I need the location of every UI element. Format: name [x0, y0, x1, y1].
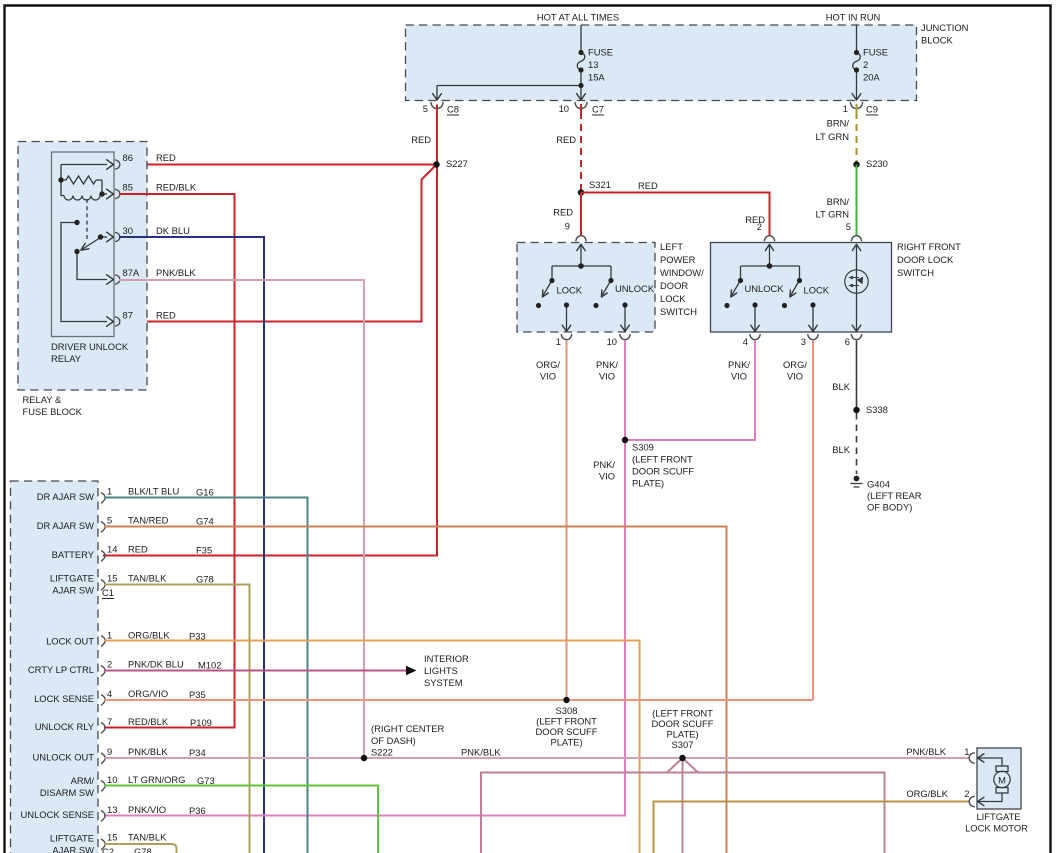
svg-text:S338: S338 — [866, 404, 888, 415]
svg-text:VIO: VIO — [787, 371, 803, 382]
svg-text:RED: RED — [553, 207, 573, 218]
svg-text:C2: C2 — [102, 846, 114, 853]
svg-text:3: 3 — [801, 336, 806, 347]
svg-text:HOT IN RUN: HOT IN RUN — [826, 12, 881, 23]
svg-text:G16: G16 — [196, 487, 214, 498]
svg-text:87: 87 — [123, 310, 133, 321]
svg-text:LT GRN: LT GRN — [815, 209, 849, 220]
svg-text:15A: 15A — [588, 72, 605, 83]
svg-text:SYSTEM: SYSTEM — [424, 677, 463, 688]
svg-text:M: M — [998, 775, 1006, 786]
svg-text:C1: C1 — [102, 587, 114, 598]
svg-text:ORG/VIO: ORG/VIO — [128, 688, 168, 699]
svg-text:FUSE: FUSE — [863, 47, 888, 58]
svg-text:S321: S321 — [589, 179, 611, 190]
svg-text:85: 85 — [123, 182, 133, 193]
svg-text:FUSE: FUSE — [588, 47, 613, 58]
svg-text:TAN/BLK: TAN/BLK — [128, 573, 167, 584]
svg-text:2: 2 — [964, 788, 969, 799]
svg-text:S307: S307 — [672, 739, 694, 750]
svg-text:DOOR SCUFF: DOOR SCUFF — [536, 726, 598, 737]
svg-text:ORG/BLK: ORG/BLK — [906, 788, 948, 799]
svg-text:LIFTGATE: LIFTGATE — [50, 833, 94, 844]
svg-text:ORG/BLK: ORG/BLK — [128, 630, 170, 641]
svg-text:JUNCTION: JUNCTION — [921, 22, 968, 33]
svg-text:14: 14 — [107, 544, 117, 555]
svg-text:PNK/: PNK/ — [728, 359, 750, 370]
svg-text:(RIGHT CENTER: (RIGHT CENTER — [371, 723, 444, 734]
svg-text:LOCK OUT: LOCK OUT — [46, 636, 94, 647]
svg-text:13: 13 — [588, 59, 598, 70]
svg-text:AJAR SW: AJAR SW — [52, 845, 94, 853]
svg-text:(LEFT FRONT: (LEFT FRONT — [632, 454, 693, 465]
svg-text:BLOCK: BLOCK — [921, 35, 954, 46]
svg-text:VIO: VIO — [540, 371, 556, 382]
svg-text:P36: P36 — [189, 805, 206, 816]
svg-text:G73: G73 — [197, 775, 215, 786]
svg-text:TAN/RED: TAN/RED — [128, 515, 169, 526]
svg-text:RED: RED — [156, 152, 176, 163]
svg-text:86: 86 — [123, 152, 133, 163]
svg-text:87A: 87A — [123, 267, 140, 278]
svg-text:LEFT: LEFT — [660, 241, 683, 252]
svg-text:1: 1 — [964, 746, 969, 757]
svg-text:RIGHT FRONT: RIGHT FRONT — [897, 241, 961, 252]
svg-text:S308: S308 — [556, 705, 578, 716]
svg-text:M102: M102 — [198, 660, 221, 671]
svg-text:ORG/: ORG/ — [536, 359, 560, 370]
svg-text:LOCK MOTOR: LOCK MOTOR — [965, 823, 1028, 834]
svg-text:2: 2 — [757, 221, 762, 232]
svg-text:PNK/BLK: PNK/BLK — [906, 746, 946, 757]
svg-text:PNK/BLK: PNK/BLK — [461, 747, 501, 758]
svg-text:5: 5 — [846, 221, 851, 232]
svg-text:PNK/DK BLU: PNK/DK BLU — [128, 659, 184, 670]
svg-text:BLK: BLK — [832, 444, 850, 455]
svg-text:LT GRN: LT GRN — [815, 131, 849, 142]
svg-text:10: 10 — [107, 774, 117, 785]
svg-text:F35: F35 — [196, 545, 212, 556]
svg-text:UNLOCK OUT: UNLOCK OUT — [33, 752, 95, 763]
svg-text:UNLOCK SENSE: UNLOCK SENSE — [21, 809, 94, 820]
svg-text:(LEFT FRONT: (LEFT FRONT — [536, 716, 597, 727]
svg-text:FUSE BLOCK: FUSE BLOCK — [23, 406, 83, 417]
svg-text:LIFTGATE: LIFTGATE — [50, 573, 94, 584]
svg-text:9: 9 — [565, 221, 570, 232]
svg-text:P34: P34 — [189, 747, 206, 758]
svg-text:DOOR SCUFF: DOOR SCUFF — [652, 718, 714, 729]
svg-text:BLK: BLK — [832, 381, 850, 392]
svg-text:9: 9 — [107, 746, 112, 757]
svg-text:AJAR SW: AJAR SW — [52, 585, 94, 596]
svg-text:BLK/LT BLU: BLK/LT BLU — [128, 486, 179, 497]
svg-text:4: 4 — [107, 688, 112, 699]
svg-text:RED: RED — [156, 310, 176, 321]
svg-text:PNK/BLK: PNK/BLK — [156, 267, 196, 278]
svg-text:LOCK: LOCK — [557, 285, 583, 296]
svg-text:S222: S222 — [371, 747, 393, 758]
svg-text:G78: G78 — [196, 574, 214, 585]
svg-text:20A: 20A — [863, 72, 880, 83]
svg-text:2: 2 — [107, 659, 112, 670]
svg-text:S230: S230 — [866, 158, 888, 169]
svg-text:C7: C7 — [592, 104, 604, 115]
svg-text:BRN/: BRN/ — [827, 196, 850, 207]
svg-text:1: 1 — [107, 486, 112, 497]
svg-text:RED: RED — [745, 214, 765, 225]
svg-text:VIO: VIO — [731, 371, 747, 382]
svg-text:VIO: VIO — [599, 371, 615, 382]
svg-text:PLATE): PLATE) — [550, 737, 582, 748]
svg-text:1: 1 — [843, 103, 848, 114]
svg-text:RED: RED — [638, 180, 658, 191]
svg-text:DOOR SCUFF: DOOR SCUFF — [632, 466, 694, 477]
svg-text:RED: RED — [556, 134, 576, 145]
svg-text:C9: C9 — [866, 104, 878, 115]
svg-text:LT GRN/ORG: LT GRN/ORG — [128, 774, 185, 785]
svg-text:UNLOCK: UNLOCK — [745, 283, 785, 294]
svg-text:DK BLU: DK BLU — [156, 225, 190, 236]
svg-text:1: 1 — [556, 336, 561, 347]
svg-text:DISARM SW: DISARM SW — [40, 787, 94, 798]
svg-text:PLATE): PLATE) — [632, 478, 664, 489]
svg-text:5: 5 — [423, 103, 428, 114]
svg-text:RED/BLK: RED/BLK — [128, 716, 169, 727]
svg-text:TAN/BLK: TAN/BLK — [128, 832, 167, 843]
svg-text:DR AJAR SW: DR AJAR SW — [37, 491, 94, 502]
svg-text:WINDOW/: WINDOW/ — [660, 267, 704, 278]
svg-text:SWITCH: SWITCH — [897, 267, 934, 278]
svg-text:VIO: VIO — [599, 471, 615, 482]
svg-text:BATTERY: BATTERY — [52, 549, 95, 560]
svg-text:G74: G74 — [196, 516, 214, 527]
svg-text:DRIVER UNLOCK: DRIVER UNLOCK — [51, 341, 129, 352]
svg-text:10: 10 — [559, 103, 569, 114]
svg-text:RED/BLK: RED/BLK — [156, 182, 197, 193]
svg-text:LIFTGATE: LIFTGATE — [976, 811, 1020, 822]
svg-text:S227: S227 — [446, 158, 468, 169]
svg-text:DR AJAR SW: DR AJAR SW — [37, 520, 94, 531]
svg-text:30: 30 — [123, 225, 133, 236]
svg-text:G78: G78 — [134, 846, 152, 853]
svg-text:P109: P109 — [190, 717, 212, 728]
svg-text:PLATE): PLATE) — [666, 729, 698, 740]
svg-text:6: 6 — [845, 336, 850, 347]
svg-text:G404: G404 — [867, 479, 890, 490]
svg-text:RELAY &: RELAY & — [23, 394, 62, 405]
svg-text:BRN/: BRN/ — [827, 118, 850, 129]
svg-text:PNK/VIO: PNK/VIO — [128, 804, 166, 815]
svg-text:C8: C8 — [447, 104, 459, 115]
svg-text:LOCK SENSE: LOCK SENSE — [34, 693, 94, 704]
svg-text:ARM/: ARM/ — [71, 775, 95, 786]
svg-text:HOT AT ALL TIMES: HOT AT ALL TIMES — [537, 12, 619, 23]
svg-text:(LEFT REAR: (LEFT REAR — [867, 490, 922, 501]
svg-text:SWITCH: SWITCH — [660, 306, 697, 317]
svg-text:PNK/: PNK/ — [593, 459, 615, 470]
svg-text:OF BODY): OF BODY) — [867, 502, 912, 513]
svg-text:RELAY: RELAY — [51, 353, 82, 364]
svg-text:P35: P35 — [189, 689, 206, 700]
svg-text:LOCK: LOCK — [804, 285, 830, 296]
svg-text:15: 15 — [107, 573, 117, 584]
svg-text:13: 13 — [107, 804, 117, 815]
svg-text:UNLOCK RLY: UNLOCK RLY — [35, 721, 95, 732]
svg-text:RED: RED — [411, 134, 431, 145]
svg-text:(LEFT FRONT: (LEFT FRONT — [652, 708, 713, 719]
svg-text:DOOR LOCK: DOOR LOCK — [897, 254, 954, 265]
svg-text:CRTY LP CTRL: CRTY LP CTRL — [28, 664, 94, 675]
svg-text:POWER: POWER — [660, 254, 696, 265]
svg-text:4: 4 — [743, 336, 748, 347]
svg-text:UNLOCK: UNLOCK — [615, 283, 655, 294]
svg-text:2: 2 — [863, 59, 868, 70]
svg-text:S309: S309 — [632, 442, 654, 453]
svg-text:PNK/BLK: PNK/BLK — [128, 746, 168, 757]
svg-text:ORG/: ORG/ — [783, 359, 807, 370]
svg-text:OF DASH): OF DASH) — [371, 735, 416, 746]
svg-text:15: 15 — [107, 832, 117, 843]
svg-text:INTERIOR: INTERIOR — [424, 653, 469, 664]
svg-text:7: 7 — [107, 716, 112, 727]
svg-text:10: 10 — [607, 336, 617, 347]
svg-text:RED: RED — [128, 544, 148, 555]
svg-text:DOOR: DOOR — [660, 280, 688, 291]
svg-text:PNK/: PNK/ — [596, 359, 618, 370]
svg-text:LOCK: LOCK — [660, 293, 686, 304]
svg-text:5: 5 — [107, 515, 112, 526]
svg-text:1: 1 — [107, 630, 112, 641]
svg-text:LIGHTS: LIGHTS — [424, 665, 458, 676]
